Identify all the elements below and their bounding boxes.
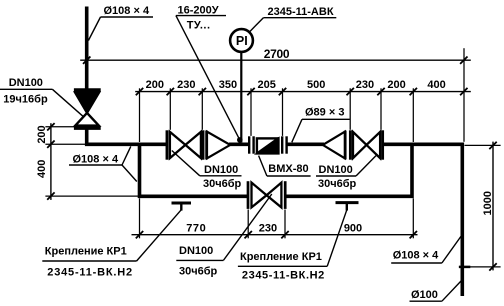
- dimension 2700: overall top dimension line: [80, 59, 471, 61]
- wire: thick dash across outlet pipe: [459, 266, 470, 269]
- wire: tie line at main line level: [45, 143, 85, 145]
- svg-text:2345-11-ВК.Н2: 2345-11-ВК.Н2: [47, 267, 133, 279]
- svg-text:2345-11-АВК: 2345-11-АВК: [268, 6, 334, 18]
- svg-text:30ч6бр: 30ч6бр: [203, 178, 242, 190]
- svg-text:2700: 2700: [264, 47, 290, 61]
- wire: left inlet vertical pipe, top segment: [85, 7, 89, 91]
- svg-text:230: 230: [177, 79, 195, 91]
- svg-text:230: 230: [356, 79, 374, 91]
- dimension 1000: right vertical dimension: [492, 142, 494, 271]
- valve V3 DN100 30ч6бр: right gate valve on main line: [349, 130, 352, 159]
- dimension chain 200,230,350,205,500,230,200,400: [135, 91, 471, 93]
- svg-text:205: 205: [258, 79, 276, 91]
- wire: tie line at bypass line level: [45, 195, 138, 197]
- svg-text:Ø108 × 4: Ø108 × 4: [104, 5, 150, 17]
- svg-text:Ø100: Ø100: [411, 289, 438, 301]
- device BMX-80 ВМХ-80: metering device with double flanges: [248, 136, 250, 153]
- svg-text:Крепление КР1: Крепление КР1: [240, 251, 322, 263]
- svg-text:1000: 1000: [482, 191, 494, 215]
- svg-text:DN100: DN100: [179, 245, 213, 257]
- svg-text:ТУ...: ТУ...: [187, 20, 211, 32]
- svg-text:Ø108 × 4: Ø108 × 4: [393, 249, 439, 261]
- wire: main line between left reducer and BMX flange: [229, 143, 250, 147]
- svg-text:30ч6бр: 30ч6бр: [318, 178, 357, 190]
- wire: bypass bottom line right part and right riser: [286, 144, 412, 196]
- reducer R2: right cone between BMX-80 and valve V3: [344, 131, 347, 160]
- svg-text:Крепление КР1: Крепление КР1: [45, 245, 127, 257]
- reducer R1: left cone between valve V2 and BMX-80: [205, 131, 208, 160]
- svg-text:400: 400: [427, 79, 445, 91]
- svg-text:ВМХ-80: ВМХ-80: [268, 163, 308, 175]
- svg-text:400: 400: [36, 160, 48, 178]
- svg-text:230: 230: [259, 222, 277, 234]
- instrument PI: pressure gauge circle: [230, 29, 253, 52]
- svg-text:770: 770: [186, 222, 206, 234]
- wire: main line between BMX and right reducer: [288, 143, 325, 147]
- svg-text:Ø89 × 3: Ø89 × 3: [305, 106, 344, 118]
- wire: bypass left riser and bottom line left part: [140, 144, 249, 196]
- wire: extension line right end (shared 2700/400 chain): [463, 48, 465, 142]
- wire: PI impulse drop line to main pipe: [240, 52, 242, 142]
- wire: extension lines for bottom chain: [139, 198, 141, 238]
- svg-text:30ч6бр: 30ч6бр: [179, 266, 218, 278]
- svg-text:DN100: DN100: [9, 77, 43, 89]
- svg-text:PI: PI: [236, 34, 248, 48]
- svg-text:350: 350: [219, 79, 237, 91]
- svg-text:900: 900: [344, 222, 362, 234]
- wire: extension lines from chain dimension down to components: [139, 88, 141, 142]
- svg-text:200: 200: [387, 79, 405, 91]
- support T2 Крепление КР1: right pipe support on bypass line: [336, 201, 359, 204]
- dimension 200,400: left vertical chain: [50, 123, 52, 200]
- wire: tie line at valve bottom flange level: [45, 126, 74, 128]
- wire: bottom tie of 1000 dimension: [459, 266, 501, 268]
- svg-text:DN100: DN100: [319, 164, 353, 176]
- wire: main line right segment + elbow + right outlet vertical pipe: [383, 144, 462, 296]
- wire: top tie of 1000 dimension: [465, 144, 501, 146]
- node: junction dot on main line at PI tap: [237, 137, 243, 143]
- support T1 Крепление КР1: left pipe support on bypass line: [172, 202, 192, 205]
- svg-text:DN100: DN100: [204, 164, 238, 176]
- svg-text:Ø108 × 4: Ø108 × 4: [73, 153, 119, 165]
- dimension 770,230,900: bottom chain under bypass: [132, 234, 418, 236]
- svg-text:500: 500: [307, 79, 325, 91]
- valve V1 19ч16бр: vertical valve on inlet pipe: [74, 88, 101, 92]
- svg-text:200: 200: [146, 79, 164, 91]
- valve V4 DN100 30ч6бр: bypass gate valve: [247, 181, 250, 209]
- svg-text:16-200У: 16-200У: [178, 4, 219, 16]
- svg-text:2345-11-ВК.Н2: 2345-11-ВК.Н2: [242, 270, 325, 282]
- wire: left pipe lower segment + elbow into main line: [87, 129, 167, 145]
- svg-text:19ч16бр: 19ч16бр: [3, 93, 48, 105]
- valve V2 DN100 30ч6бр: left gate valve on main line: [166, 130, 169, 159]
- svg-text:200: 200: [36, 125, 48, 143]
